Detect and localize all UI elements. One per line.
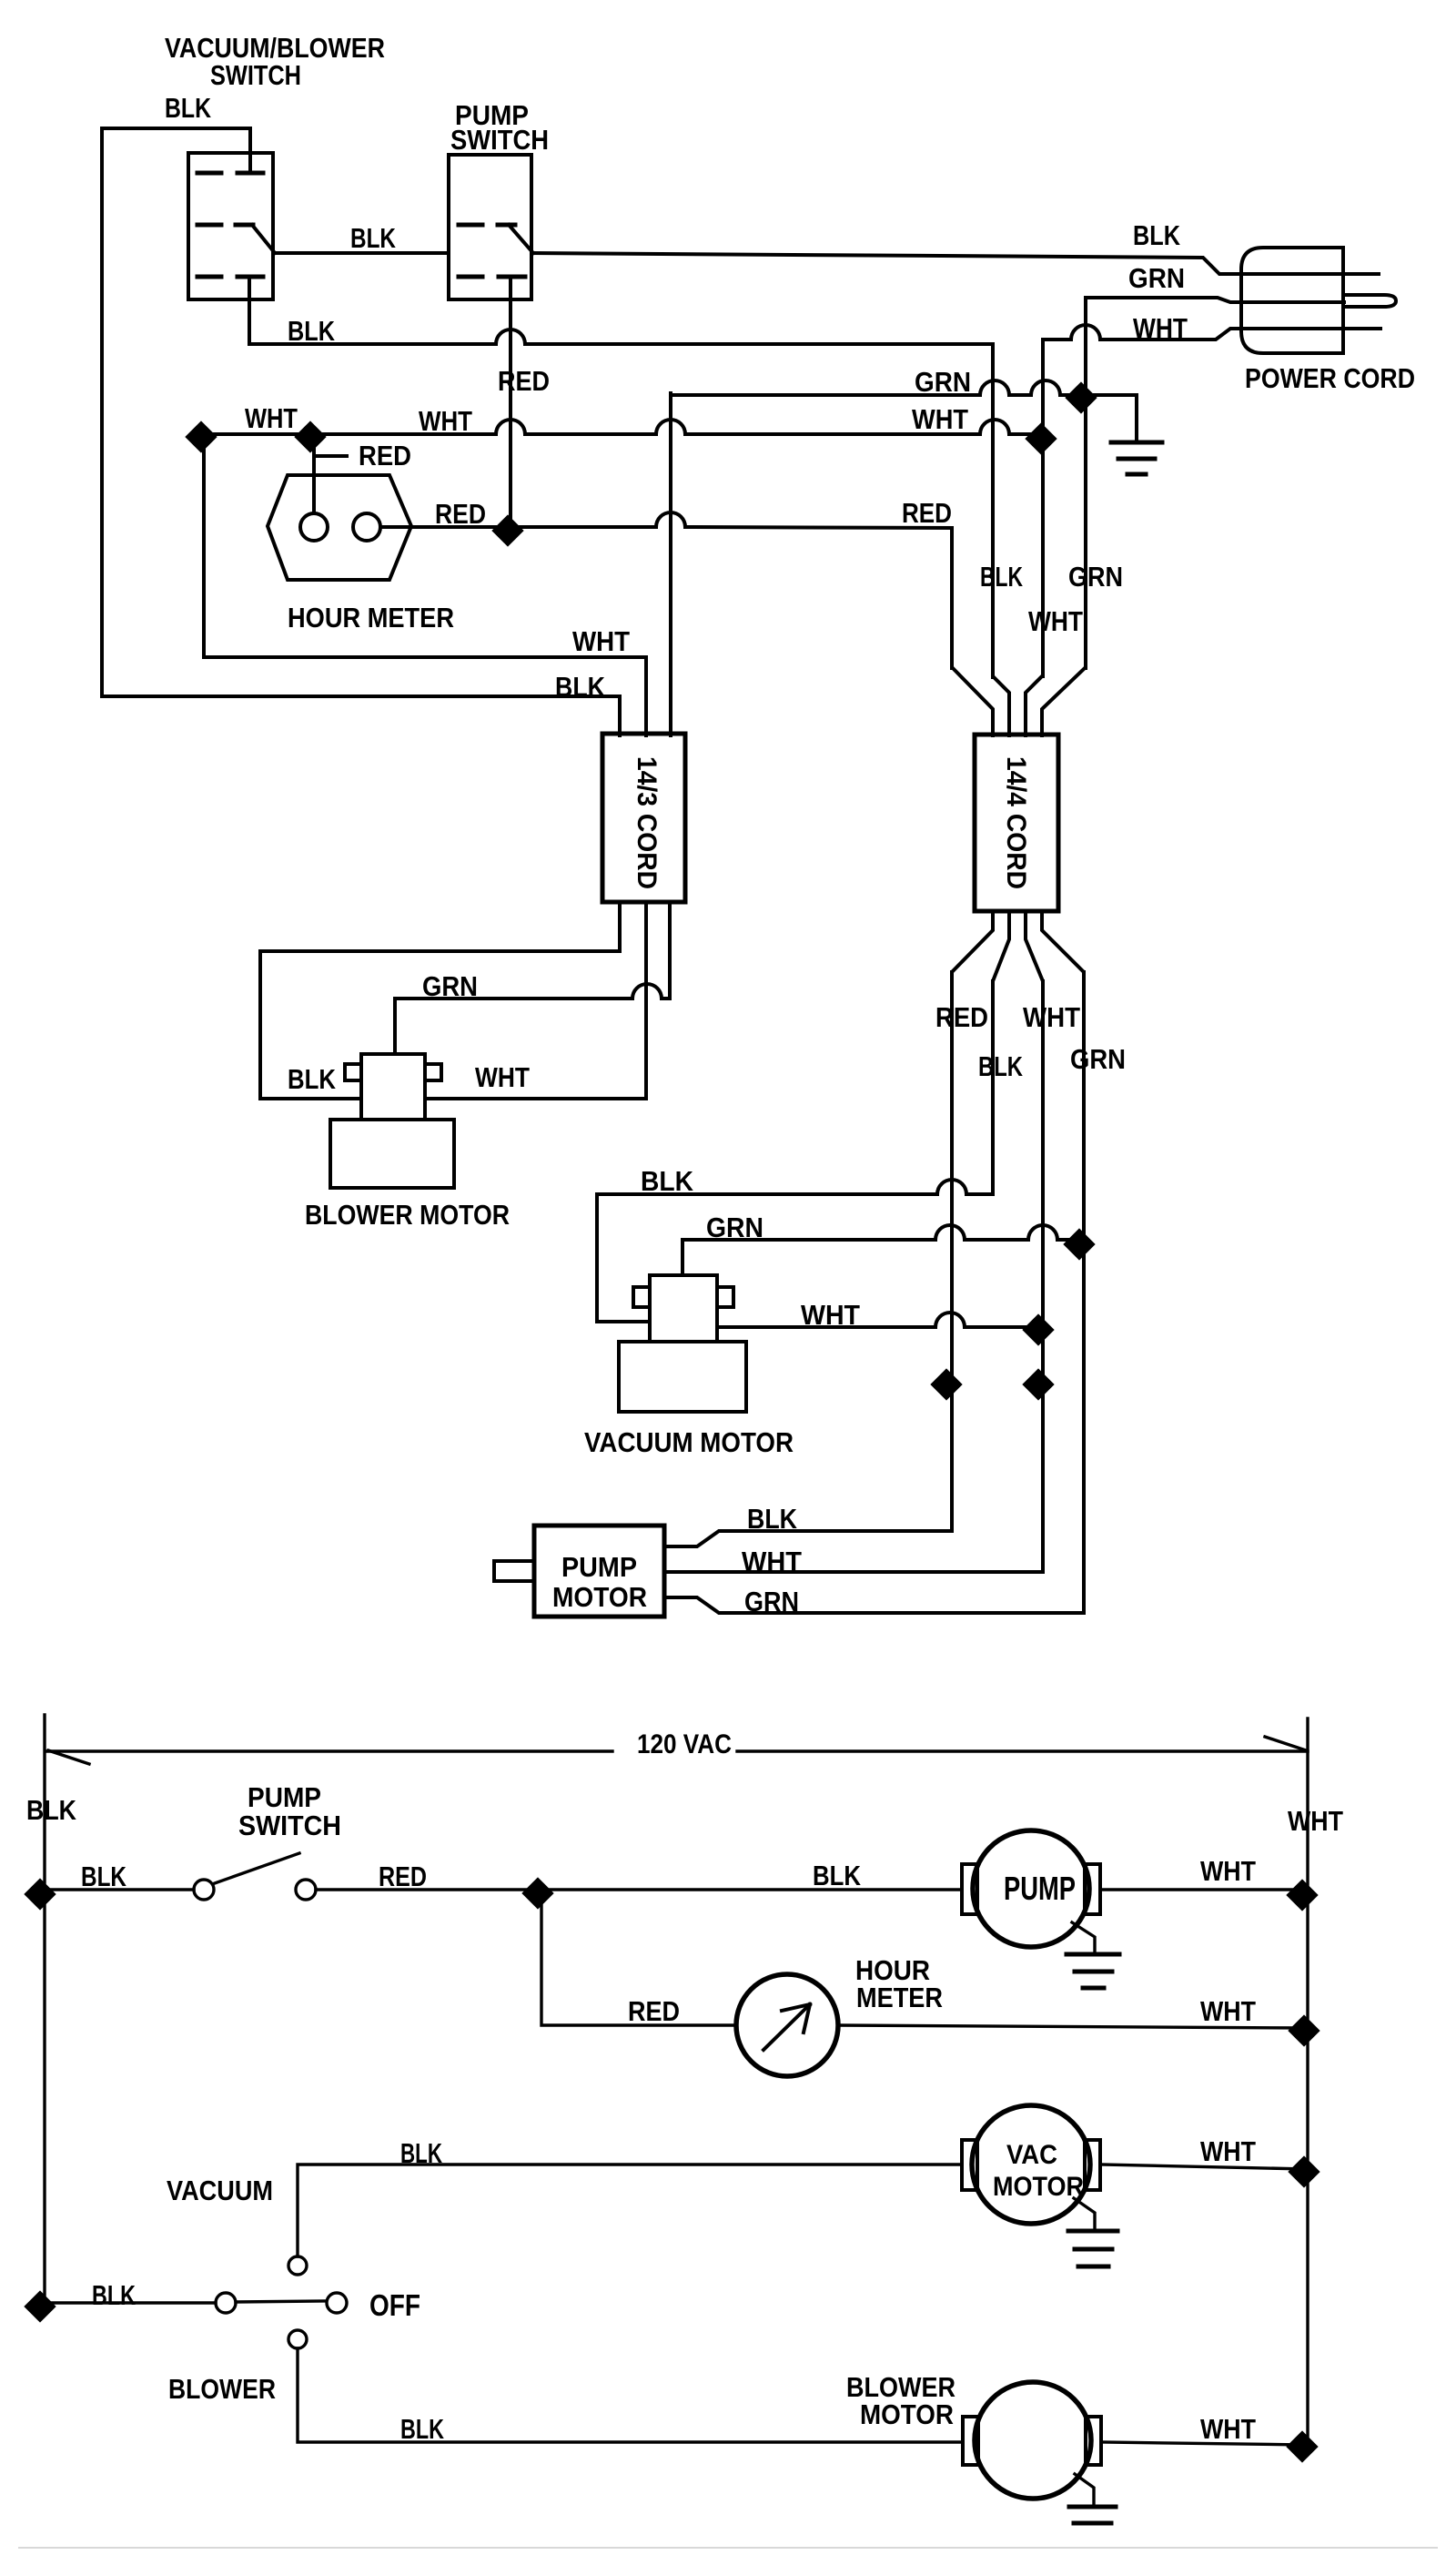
svg-text:GRN: GRN [422,970,478,1002]
wire BLK blower branch [298,2348,963,2442]
connector diamond RED junction [491,514,523,546]
switch S1 vacuum/blower switch body [188,153,273,299]
blower motor M2 upper body [361,1054,425,1120]
svg-text:WHT: WHT [912,403,968,435]
hour meter left pin circle [300,513,328,541]
svg-text:PUMP: PUMP [561,1551,637,1583]
pin terminal crossbar S2 bottom [499,275,525,279]
fan-out wires below 14/4 cord [952,911,1084,983]
wire WHT row y477 [201,420,1043,434]
svg-text:GRN: GRN [706,1212,763,1243]
connector diamond WHT junction near vacuum motor [1022,1313,1054,1345]
cord W2 14/4 CORD box [975,735,1058,911]
svg-text:VAC: VAC [1006,2140,1057,2170]
wire GRN power-cord: vertical + horizontal into plug middle prong [1086,298,1344,397]
wire WHT row3 right [1100,2165,1308,2169]
svg-text:BLOWER: BLOWER [168,2373,276,2405]
svg-text:WHT: WHT [1200,2413,1256,2445]
svg-text:BLK: BLK [81,1860,126,1892]
vacuum motor M3 upper body [650,1275,717,1342]
svg-text:WHT: WHT [1200,1855,1256,1887]
connector diamond right rail row3 [1288,2155,1319,2187]
power cord middle prong [1343,295,1396,307]
rail top 120 VAC [47,1737,1308,1764]
wire GRN below 14/3 to blower motor [395,902,670,1054]
wire WHT row4 right [1101,2442,1308,2445]
svg-text:MOTOR: MOTOR [552,1581,647,1613]
svg-text:SWITCH: SWITCH [210,59,301,91]
svg-text:VACUUM: VACUUM [167,2175,273,2206]
wire hour meter left pin stem [312,439,316,513]
svg-text:BLOWER MOTOR: BLOWER MOTOR [305,1199,510,1231]
pin terminal crossbar top (S1 pin 1) [238,171,263,176]
vac motor M5 circle [972,2105,1090,2224]
pump motor M4 body [534,1526,664,1617]
blower motor right tab (ladder) [1086,2417,1101,2465]
connector diamond left rail off row [24,2290,56,2322]
vac motor right tab [1085,2140,1100,2190]
svg-text:WHT: WHT [245,402,298,434]
svg-text:MOTOR: MOTOR [860,2398,954,2430]
svg-text:BLK: BLK [978,1050,1023,1082]
blower motor M2 lower body [330,1120,454,1188]
pin dash S1 row2 right [236,223,253,228]
svg-text:RED: RED [359,440,411,471]
label PUMP SWITCH [450,99,549,156]
pin dash S1 row2 left [197,223,221,228]
pump P1 motor circle [973,1830,1089,1947]
funnel wires into 14/4 cord [952,667,1086,735]
wire top-left horizontal from left vertical to switch top terminal [102,128,250,171]
wire WHT row1 right [1100,1888,1308,1891]
svg-text:PUMP: PUMP [248,1781,321,1813]
connector diamond on RED vertical [930,1368,962,1400]
cord W1 14/3 CORD box [602,734,685,902]
svg-text:HOUR METER: HOUR METER [288,602,454,634]
svg-text:RED: RED [435,498,486,530]
svg-text:BLK: BLK [747,1503,798,1535]
hour meter (ladder) circle [736,1974,838,2076]
pin terminal crossbar bottom (S1 pin 3) [238,275,263,279]
svg-text:RED: RED [498,365,550,397]
connector diamond hour meter left pin junction [294,421,326,452]
svg-text:BLK: BLK [165,92,211,124]
selector off circle [327,2293,347,2313]
label VACUUM/BLOWER SWITCH [165,32,385,91]
wire long left vertical BLK [100,128,104,696]
hour meter arrow [763,2004,810,2050]
wire GRN row y434 from GRN cord vertical to ground [671,380,1137,395]
wire RED right vertical down to 14/4 funnel [950,528,954,668]
wire BLK right vertical down to 14/4 funnel [991,344,995,677]
connector diamond right rail row1 [1286,1879,1318,1911]
selector vacuum throw circle [288,2256,307,2275]
wire WHT vertical down to pump motor [1041,981,1045,1572]
wire BLK vacuum branch [298,2165,962,2256]
pump motor label [552,1551,647,1613]
svg-text:WHT: WHT [742,1546,802,1577]
vacuum motor M3 lower body [619,1342,746,1412]
wire BLK pump motor to RED vertical [664,1531,952,1546]
wire RED row1 to pump [316,1888,962,1891]
rail left vertical BLK [43,1715,45,2305]
blower motor left tab [345,1064,361,1080]
connector diamond on WHT left corner [185,421,217,452]
wire GRN vertical (cord) from row y434 down to 14/3 [669,393,672,735]
vacuum motor left tab [633,1287,650,1307]
svg-text:WHT: WHT [419,405,472,437]
selector blower throw circle [288,2330,307,2348]
connector diamond left rail row1 [24,1878,56,1910]
wire RED branch down to hour meter [541,1890,736,2025]
pump switch pole circle [194,1880,214,1900]
wire BLK row1 left [45,1888,194,1891]
connector diamond on WHT vertical [1022,1368,1054,1400]
wire GRN vertical down to pump motor [1082,972,1086,1613]
svg-text:VACUUM MOTOR: VACUUM MOTOR [584,1426,794,1458]
svg-text:WHT: WHT [1200,1995,1256,2027]
wire WHT row2 right [838,2025,1308,2028]
switch S2 pump switch body [449,155,531,299]
hour meter right pin circle [353,513,380,541]
connector diamond RED branch row1 [521,1877,553,1909]
svg-text:14/3 CORD: 14/3 CORD [632,756,662,889]
svg-text:BLK: BLK [1133,219,1180,251]
vac motor label [993,2140,1084,2202]
blower motor right tab [425,1064,441,1080]
pump left tab [962,1864,977,1914]
vac motor left tab [962,2140,977,2190]
wire GRN pump motor to GRN vertical [664,1597,1084,1613]
svg-text:RED: RED [379,1860,427,1892]
svg-text:GRN: GRN [1068,561,1123,593]
connector diamond right rail row4 [1286,2430,1318,2462]
rail right vertical WHT [1306,1719,1309,2447]
ground blower motor [1069,2474,1116,2523]
svg-text:METER: METER [856,1982,943,2013]
blower motor M6 circle [975,2382,1091,2499]
svg-text:BLK: BLK [288,1063,337,1095]
connector diamond GRN junction near vacuum motor [1063,1228,1095,1260]
selector blade (off) [236,2301,326,2302]
svg-text:POWER CORD: POWER CORD [1245,362,1415,394]
svg-text:MOTOR: MOTOR [993,2172,1084,2202]
svg-text:WHT: WHT [1023,1001,1080,1033]
connector diamond GRN junction at power cord [1065,381,1097,413]
pump motor shaft [494,1561,534,1581]
wire BLK row y765 into 14/3 [102,696,620,735]
switch blade S2 [509,225,533,253]
wire BLK below 14/3 to blower motor [260,902,620,1099]
svg-text:GRN: GRN [915,366,971,398]
svg-text:120 VAC: 120 VAC [637,1729,732,1759]
svg-text:WHT: WHT [1200,2135,1256,2167]
svg-text:BLK: BLK [813,1860,862,1891]
svg-text:14/4 CORD: 14/4 CORD [1001,756,1031,889]
pump switch throw circle [296,1880,316,1900]
ground vac motor [1068,2198,1117,2266]
wire GRN vertical right from plug junction down to 14/4 funnel [1084,397,1087,668]
svg-text:WHT: WHT [1028,605,1083,637]
pin dash S1 row3 left [197,275,221,279]
power cord plug body [1241,248,1343,353]
label HOUR METER (ladder) [855,1954,943,2013]
connector diamond right rail row2 [1288,2014,1319,2046]
svg-text:BLK: BLK [641,1165,694,1197]
svg-text:BLK: BLK [400,2137,442,2169]
svg-text:GRN: GRN [1070,1043,1126,1075]
svg-text:BLK: BLK [555,671,606,703]
wire WHT power-cord: from WHT vertical to plug bottom prong [1043,325,1380,340]
vacuum motor right tab [717,1287,733,1307]
wire BLK row y378 from S1 bottom to right vertical [249,279,993,344]
svg-text:BLK: BLK [26,1794,77,1826]
wire BLK vertical + row y1312 to vacuum motor [597,981,993,1322]
svg-text:BLK: BLK [288,315,335,347]
hour meter M1 hexagon body [268,475,411,580]
pin dash S2 row3 left [459,275,482,279]
svg-text:RED: RED [935,1001,988,1033]
svg-text:GRN: GRN [1128,262,1185,294]
blower motor left tab (ladder) [963,2417,978,2465]
wire WHT into 14/3 cord [644,657,648,735]
svg-text:BLK: BLK [980,561,1023,593]
wire RED stem from S2 down to hour-meter row [509,279,512,526]
svg-text:WHT: WHT [475,1061,530,1093]
ground pump [1067,1922,1119,1988]
pin dash S2 row2 right [498,223,515,228]
svg-text:PUMP: PUMP [1004,1870,1076,1907]
svg-text:SWITCH: SWITCH [238,1810,341,1841]
wire RED vertical down to pump motor BLK [950,972,954,1531]
svg-text:WHT: WHT [572,625,630,657]
svg-text:BLK: BLK [92,2279,136,2311]
svg-text:BLK: BLK [400,2413,444,2445]
selector pole circle [216,2293,236,2313]
svg-text:WHT: WHT [1288,1805,1343,1837]
ground symbol top [1111,395,1162,474]
wire RED row y579 from hour meter to right [380,512,952,528]
svg-text:WHT: WHT [1133,312,1188,344]
pump switch blade (ladder) [215,1853,299,1883]
wire WHT pump motor to WHT vertical [664,1570,1043,1574]
svg-text:OFF: OFF [369,2288,420,2322]
wire WHT row y1458 from vacuum motor to WHT vertical [717,1313,1043,1327]
wire BLK from pump switch to power cord top prong [531,253,1379,274]
svg-text:BLK: BLK [350,222,396,254]
svg-text:SWITCH: SWITCH [450,124,549,156]
svg-text:GRN: GRN [744,1586,799,1617]
wire WHT left vertical down to 14/3 row [204,439,646,657]
svg-text:RED: RED [902,497,952,529]
scan artifact line bottom [18,2547,1438,2549]
switch blade S1 [252,225,275,253]
wire BLK off row [45,2301,216,2304]
svg-text:RED: RED [628,1995,680,2027]
wire WHT vertical right down to 14/4 funnel [1041,340,1045,676]
pin dash S1 row1 left [197,171,221,176]
pump right tab [1085,1864,1100,1914]
wire GRN row y1362 from vacuum motor to GRN vertical [682,1225,1084,1275]
wire BLK between switches [273,251,449,255]
label BLOWER MOTOR (ladder) [846,2371,955,2430]
wire RED pointer stub [317,454,347,458]
connector diamond WHT junction at power cord [1025,422,1057,454]
wire WHT below 14/3 to blower motor [425,902,646,1099]
svg-text:WHT: WHT [801,1299,860,1331]
label PUMP SWITCH (ladder) [238,1781,341,1841]
pin dash S2 row2 left [459,223,482,228]
